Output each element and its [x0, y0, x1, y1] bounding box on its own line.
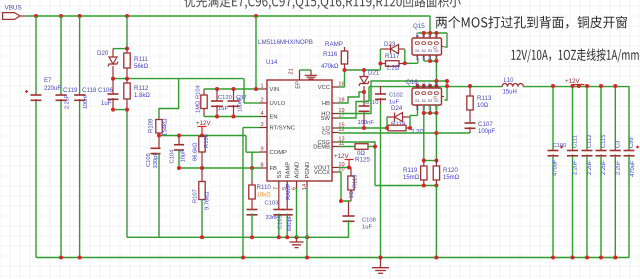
wire HB net	[339, 92, 364, 103]
wire Q15 source	[424, 58, 437, 86]
junction Q15 drain c	[434, 31, 438, 35]
capacitor C119	[56, 87, 78, 109]
svg-text:100nF: 100nF	[83, 93, 89, 109]
junction bus C115	[599, 256, 603, 260]
svg-text:Q15: Q15	[413, 23, 425, 30]
svg-text:D: D	[432, 96, 437, 99]
svg-text:15uH: 15uH	[503, 90, 517, 96]
svg-text:1MΩ: 1MΩ	[196, 100, 202, 113]
junction Q16 src b	[428, 111, 432, 115]
svg-text:HB: HB	[322, 101, 330, 107]
wire VIN drop	[255, 16, 257, 89]
junction R117 left	[378, 62, 382, 66]
junction R125 right	[373, 145, 377, 149]
svg-text:15mΩ: 15mΩ	[443, 175, 460, 181]
svg-text:2: 2	[260, 98, 263, 104]
svg-text:R109: R109	[149, 118, 155, 133]
svg-text:3: 3	[260, 122, 263, 128]
svg-text:FB: FB	[270, 166, 278, 172]
svg-text:2.2Ω: 2.2Ω	[387, 66, 400, 72]
junction VBUS R111	[125, 14, 129, 18]
svg-text:VIN: VIN	[270, 87, 280, 93]
ground EP	[300, 70, 318, 79]
junction rail C115	[599, 84, 603, 88]
wire ground bus	[36, 257, 629, 259]
junction D21 top	[362, 68, 366, 72]
wire HO net	[339, 81, 448, 114]
svg-text:2.2uF: 2.2uF	[587, 160, 593, 175]
junction R120 top	[434, 159, 438, 163]
junction AGND C103	[250, 235, 254, 239]
wire Q16 gate right node	[410, 105, 418, 128]
resistor R120	[433, 160, 459, 186]
resistor R107	[193, 168, 211, 237]
diode D21	[359, 70, 380, 93]
svg-text:SW: SW	[321, 116, 331, 122]
svg-text:RT/SYNC: RT/SYNC	[270, 126, 295, 132]
svg-text:EP: EP	[296, 81, 302, 89]
svg-text:R110: R110	[257, 184, 272, 191]
wire SW rail	[369, 87, 502, 102]
junction CS tap	[434, 131, 438, 135]
wire C119 column	[60, 16, 62, 258]
wire PGND pin drop	[306, 188, 308, 258]
resistor R104	[196, 84, 208, 116]
junction bus ground	[379, 256, 383, 260]
junction Q15 drain b	[428, 31, 432, 35]
svg-text:PGND: PGND	[305, 162, 311, 179]
svg-text:1uF: 1uF	[362, 225, 372, 231]
svg-text:R113: R113	[477, 95, 492, 102]
junction bus R120	[434, 256, 438, 260]
wire E7 column	[35, 16, 37, 258]
capacitor C3	[610, 86, 622, 258]
junction bus C100	[551, 256, 555, 260]
svg-text:C115: C115	[601, 135, 607, 148]
capacitor C111	[567, 86, 579, 258]
junction R118 right	[408, 126, 412, 130]
junction Q16 hook	[434, 79, 438, 83]
wire SW net	[339, 102, 370, 119]
junction VBUS VIN drop	[254, 14, 258, 18]
capacitor E7	[25, 77, 61, 101]
power +12V vout	[334, 153, 354, 168]
svg-text:S2: S2	[421, 99, 425, 103]
svg-text:G4: G4	[416, 105, 420, 110]
svg-text:EN: EN	[270, 115, 278, 121]
junction SW-Q16 b	[428, 84, 432, 88]
resistor R112	[124, 79, 151, 110]
svg-text:D5: D5	[416, 82, 420, 87]
svg-text:L10: L10	[504, 78, 515, 84]
wire C118 column	[79, 16, 81, 258]
svg-text:RAMP: RAMP	[285, 162, 291, 179]
capacitor C115	[596, 86, 608, 258]
svg-text:4: 4	[260, 111, 263, 117]
junction C120 top	[215, 87, 219, 91]
svg-text:D24: D24	[391, 105, 403, 112]
junction HB-D21-C110	[362, 90, 366, 94]
svg-text:VBUS: VBUS	[5, 5, 22, 12]
junction SW-R113	[468, 84, 472, 88]
svg-text:E7: E7	[44, 77, 52, 84]
capacitor C107	[465, 121, 496, 135]
junction R106 top	[200, 134, 204, 138]
svg-text:470uF: 470uF	[630, 160, 636, 177]
junction SW-Q16 gate	[416, 84, 420, 88]
junction VBUS C119	[59, 14, 63, 18]
junction Q15 source b	[434, 59, 438, 63]
svg-text:AGND: AGND	[295, 162, 301, 179]
capacitor C109b	[282, 188, 293, 237]
svg-text:D7: D7	[428, 82, 432, 87]
svg-text:R106: R106	[204, 134, 210, 148]
junction C108-PGND	[305, 235, 309, 239]
capacitor C104	[170, 136, 187, 169]
wire RT net	[243, 128, 259, 258]
wire VCC node	[339, 70, 381, 87]
svg-text:100nF: 100nF	[358, 120, 375, 126]
wire PGND drop	[435, 186, 437, 258]
resistor R106	[193, 134, 211, 168]
svg-text:R112: R112	[134, 85, 149, 92]
svg-text:C3: C3	[615, 141, 621, 148]
diode D24	[387, 105, 410, 122]
resistor R116	[321, 47, 348, 70]
capacitor C109a	[273, 188, 284, 237]
annotation top line (clipped)	[184, 0, 460, 9]
svg-text:LM5116MHX/NOPB: LM5116MHX/NOPB	[258, 39, 313, 46]
svg-text:C120: C120	[218, 95, 232, 101]
svg-text:C105: C105	[146, 153, 152, 167]
svg-text:8: 8	[260, 163, 263, 169]
wire CSG net	[339, 142, 376, 186]
svg-text:C104: C104	[170, 149, 176, 164]
svg-text:C112: C112	[587, 135, 593, 148]
junction AGND C109b	[285, 235, 289, 239]
svg-text:R116: R116	[323, 51, 338, 58]
junction bus C3	[613, 256, 617, 260]
junction C106 bottom	[111, 108, 115, 112]
wire COMP net	[159, 136, 259, 169]
svg-text:154kΩ: 154kΩ	[163, 118, 169, 136]
svg-text:DEMB: DEMB	[313, 145, 330, 151]
junction C120 bottom	[215, 115, 219, 119]
capacitor C97	[228, 89, 247, 117]
junction C97 bottom	[232, 115, 236, 119]
junction C97 top	[232, 87, 236, 91]
junction bus C118	[78, 256, 82, 260]
svg-text:R104: R104	[196, 84, 202, 99]
svg-text:VCCX: VCCX	[314, 170, 330, 176]
junction R111-R112	[125, 77, 129, 81]
svg-text:C103: C103	[265, 201, 279, 207]
svg-text:C119: C119	[63, 87, 78, 94]
junction SW-Q16 a	[422, 84, 426, 88]
svg-text:56kΩ: 56kΩ	[134, 64, 149, 70]
junction bus RT	[241, 256, 245, 260]
junction C110 bottom	[362, 126, 366, 130]
svg-text:S1: S1	[415, 49, 419, 53]
wire Q16 drain hook	[445, 81, 448, 100]
wire R111 drop	[126, 16, 128, 49]
capacitor C102	[375, 86, 403, 258]
junction R118 left	[385, 126, 389, 130]
svg-text:86.6kΩ: 86.6kΩ	[193, 142, 199, 161]
svg-text:10pF: 10pF	[181, 149, 187, 163]
resistor R125	[339, 144, 376, 164]
junction SW hook	[445, 84, 449, 88]
svg-text:R115: R115	[353, 175, 359, 188]
junction SW-Q16 c	[434, 84, 438, 88]
wire D23 left node	[379, 49, 381, 70]
svg-text:2.2uF: 2.2uF	[573, 160, 579, 175]
junction rail C111	[571, 84, 575, 88]
junction VBUS C118	[78, 14, 82, 18]
svg-text:R117: R117	[385, 53, 400, 60]
capacitor C106	[98, 79, 119, 110]
diode D20	[97, 49, 118, 79]
wire sense bottom	[375, 185, 436, 187]
svg-text:470uF: 470uF	[553, 159, 559, 176]
junction Q16 src a	[422, 111, 426, 115]
capacitor C105	[146, 136, 161, 238]
capacitor C110	[358, 92, 379, 128]
junction bus C112	[585, 256, 589, 260]
wire VIN net	[204, 88, 259, 90]
wire D20 top link	[113, 48, 127, 50]
capacitor C103	[247, 201, 280, 238]
svg-text:C109: C109	[278, 215, 284, 229]
junction VOUT 12V	[347, 166, 351, 170]
inductor L10	[502, 78, 523, 96]
svg-text:C111: C111	[573, 135, 579, 148]
junction R120 bottom	[434, 184, 438, 188]
junction R106 bottom	[200, 166, 204, 170]
wire VCCX net	[339, 172, 352, 201]
wire LO net	[339, 127, 389, 129]
svg-text:D: D	[432, 46, 437, 49]
resistor R109	[149, 79, 179, 136]
svg-text:R125: R125	[355, 157, 370, 164]
svg-text:S1: S1	[415, 99, 419, 103]
svg-text:S2: S2	[421, 49, 425, 53]
junction R110 top	[250, 166, 254, 170]
wire CS net	[339, 132, 471, 134]
capacitor C99	[624, 86, 640, 258]
junction rail C3	[613, 84, 617, 88]
svg-text:G4: G4	[416, 55, 420, 60]
svg-text:21: 21	[289, 68, 295, 74]
junction AGND C109a	[277, 235, 281, 239]
junction bus C119	[59, 256, 63, 260]
junction C104 top	[177, 134, 181, 138]
wire FB net	[179, 167, 259, 169]
wire Q16 source	[424, 105, 437, 161]
svg-text:2.2uF: 2.2uF	[615, 160, 621, 175]
annotation MOS note	[436, 16, 627, 29]
svg-text:680pF: 680pF	[287, 214, 293, 231]
capacitor C120	[211, 89, 232, 117]
capacitor C118	[74, 87, 97, 109]
svg-text:1uF: 1uF	[101, 101, 112, 107]
svg-text:C106: C106	[98, 87, 113, 94]
svg-text:CS: CS	[322, 131, 330, 137]
svg-text:9: 9	[260, 147, 263, 153]
junction AGND R107	[200, 235, 204, 239]
svg-text:15mΩ: 15mΩ	[403, 175, 420, 181]
resistor R119	[403, 160, 427, 186]
wire 12V rail	[523, 86, 629, 88]
capacitor C112	[582, 86, 594, 258]
svg-text:RAMP: RAMP	[325, 41, 343, 48]
wire divider bottom	[113, 110, 127, 238]
junction D20-R111 top	[125, 47, 129, 51]
ground AGND	[290, 188, 304, 248]
junction R116 bottom	[343, 68, 347, 72]
junction rail C112	[585, 84, 589, 88]
junction COMP-C105	[157, 134, 161, 138]
wire AGND rail	[127, 236, 307, 238]
svg-text:RAMP: RAMP	[286, 183, 292, 200]
svg-text:100pF: 100pF	[478, 129, 495, 135]
resistor R113	[467, 86, 492, 123]
svg-text:2.2uF: 2.2uF	[601, 160, 607, 175]
svg-text:COMP: COMP	[270, 150, 288, 156]
junction Q15 source a	[428, 59, 432, 63]
power +12V rail	[565, 78, 585, 86]
junction R117 right	[403, 61, 407, 65]
junction rail 12V	[577, 84, 581, 88]
svg-text:1uF: 1uF	[218, 106, 228, 112]
junction AGND pin	[295, 235, 299, 239]
svg-text:9.76kΩ: 9.76kΩ	[205, 191, 211, 210]
junction rail C100	[551, 84, 555, 88]
svg-text:1.8kΩ: 1.8kΩ	[134, 93, 150, 99]
svg-text:220uF: 220uF	[44, 86, 61, 92]
capacitor C100	[548, 86, 567, 258]
svg-text:100nF: 100nF	[238, 96, 244, 112]
wire UVLO node	[113, 79, 259, 103]
svg-text:C102: C102	[389, 93, 403, 99]
svg-text:C100: C100	[553, 143, 567, 149]
svg-text:SS: SS	[277, 171, 283, 179]
port VBUS	[3, 5, 26, 20]
junction Q16 hook b	[445, 79, 449, 83]
resistor R110	[249, 168, 272, 202]
resistor R111	[124, 49, 149, 79]
junction C104 bottom	[177, 166, 181, 170]
svg-text:R119: R119	[403, 167, 418, 174]
svg-text:C108: C108	[362, 218, 376, 224]
junction bus PGND	[305, 256, 309, 260]
svg-text:R111: R111	[134, 56, 148, 63]
wire Q16 gate left node	[386, 117, 388, 128]
net label RAMP2	[286, 183, 292, 200]
svg-text:D21: D21	[368, 70, 380, 77]
junction R119 bottom	[422, 184, 426, 188]
svg-text:1Ω: 1Ω	[349, 190, 355, 198]
junction R119 top	[422, 159, 426, 163]
wire Q15 drain	[418, 16, 448, 47]
svg-text:470kΩ: 470kΩ	[321, 64, 339, 70]
resistor R115	[348, 168, 359, 202]
diode D23	[380, 41, 404, 54]
svg-text:U14: U14	[266, 59, 278, 66]
svg-text:VCC: VCC	[318, 85, 330, 91]
junction bus C111	[571, 256, 575, 260]
svg-text:R120: R120	[443, 167, 458, 174]
junction VIN drop	[254, 87, 258, 91]
svg-text:1: 1	[260, 84, 263, 90]
svg-text:D8: D8	[435, 82, 439, 87]
svg-text:D6: D6	[422, 82, 426, 87]
svg-text:C99: C99	[629, 137, 635, 148]
junction R112 bottom	[125, 108, 129, 112]
resistor R118	[388, 121, 424, 136]
junction D20 bottom	[111, 77, 115, 81]
svg-text:C118: C118	[82, 87, 97, 94]
capacitor C108	[307, 201, 376, 237]
svg-text:C107: C107	[478, 121, 493, 128]
svg-text:2.2uF: 2.2uF	[65, 94, 71, 109]
wire sense top	[424, 160, 437, 162]
annotation current note	[511, 48, 638, 62]
svg-text:UVLO: UVLO	[270, 101, 286, 107]
svg-text:10Ω: 10Ω	[477, 103, 489, 109]
wire EN net	[204, 116, 259, 118]
svg-text:R107: R107	[193, 189, 199, 203]
wire VBUS rail	[25, 15, 430, 17]
net label RAMP	[325, 41, 343, 48]
transistor Q16	[406, 79, 444, 110]
power +12V comp	[196, 120, 211, 136]
svg-text:D20: D20	[97, 50, 109, 57]
junction VBUS E7	[34, 14, 38, 18]
transistor Q15	[412, 23, 444, 60]
op-amp U14 LM5116 controller	[258, 39, 345, 190]
svg-text:330pF: 330pF	[153, 152, 159, 169]
resistor R117	[380, 53, 404, 72]
junction Q15 drain a	[422, 31, 426, 35]
wire VOUT net	[339, 167, 352, 169]
junction Q16 src c	[434, 111, 438, 115]
ground main	[372, 258, 389, 274]
junction VCCX-R115	[339, 199, 343, 203]
wire D23 right node	[405, 49, 418, 63]
svg-text:16kΩ: 16kΩ	[257, 193, 272, 199]
